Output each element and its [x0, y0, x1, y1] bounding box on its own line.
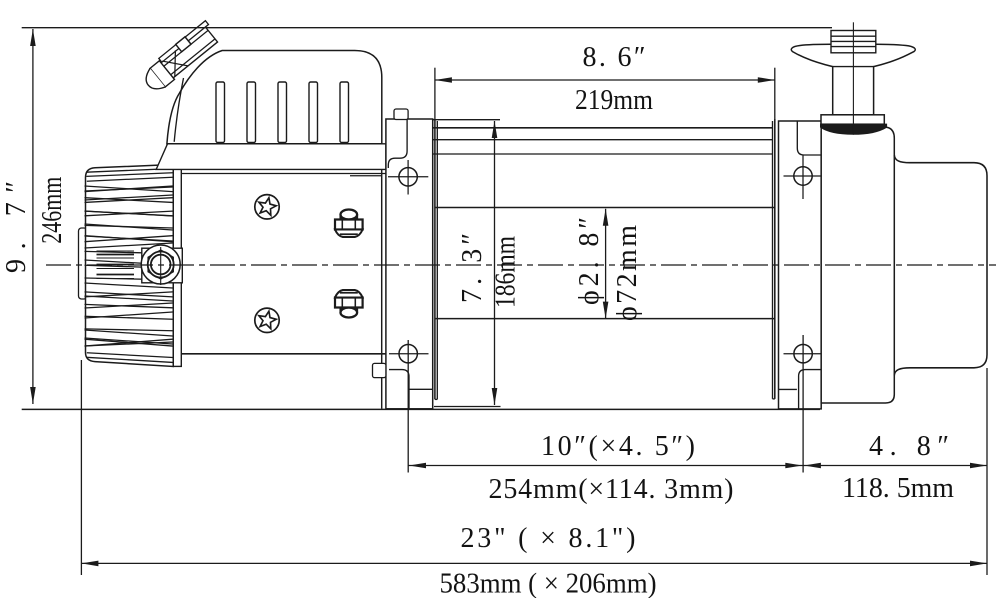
- svg-text:246mm: 246mm: [37, 177, 68, 244]
- svg-text:7. 3″: 7. 3″: [457, 233, 488, 303]
- svg-text:186mm: 186mm: [491, 236, 522, 308]
- svg-text:4. 8″: 4. 8″: [869, 431, 949, 462]
- svg-text:118. 5mm: 118. 5mm: [842, 473, 954, 504]
- svg-text:583mm ( × 206mm): 583mm ( × 206mm): [440, 569, 657, 598]
- svg-text:254mm(×114. 3mm): 254mm(×114. 3mm): [489, 474, 734, 505]
- svg-text:10″(×4. 5″): 10″(×4. 5″): [541, 431, 695, 462]
- svg-text:219mm: 219mm: [575, 85, 653, 116]
- svg-text:8. 6″: 8. 6″: [583, 42, 646, 73]
